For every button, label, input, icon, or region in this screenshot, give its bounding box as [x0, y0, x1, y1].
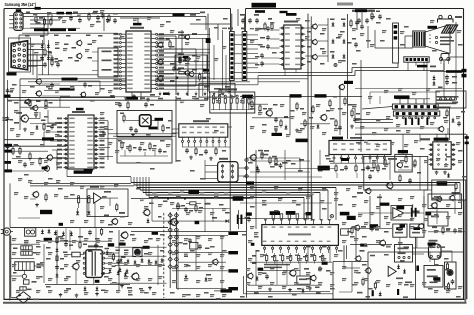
ground g1 — [23, 114, 38, 132]
wire video IC below — [182, 147, 230, 160]
transistor Q701 — [120, 231, 128, 239]
transistor Q513 — [417, 223, 423, 229]
diode D332 right — [221, 219, 229, 222]
op-amp U4 video IC body — [179, 124, 228, 147]
resistor Rt1 — [43, 18, 45, 27]
transistor Qd1 — [76, 40, 82, 46]
capacitor C330 dark — [237, 210, 243, 229]
wire staircase bus upper — [258, 61, 444, 76]
label below IC6 blk — [258, 262, 328, 271]
wire x57 col — [57, 230, 64, 284]
op-amp U8 triangle — [94, 193, 102, 203]
capacitor C353 — [158, 148, 166, 154]
box opamp outline — [87, 189, 128, 217]
wire rail x308 — [307, 14, 309, 262]
capacitor C510 — [368, 174, 372, 180]
diode D633 — [379, 291, 382, 296]
capacitor C402 — [338, 125, 342, 131]
wire node rail B — [174, 212, 178, 288]
resistor R311 — [39, 157, 41, 166]
capacitor C102 — [92, 13, 117, 24]
resistor R630 — [446, 262, 448, 271]
resistor R410 — [351, 109, 353, 118]
label under IC1 — [150, 93, 169, 96]
connector CN8 row1 — [392, 104, 438, 109]
label small blk — [59, 223, 63, 226]
box OSC outline — [117, 111, 172, 138]
title text — [5, 2, 37, 7]
box lower right1 — [428, 194, 462, 209]
label dsub field — [55, 44, 92, 62]
box bottom-right outline — [333, 252, 464, 299]
label blk rm2 — [370, 224, 379, 227]
diode D320 — [76, 208, 79, 215]
wire IC2 right rows — [305, 18, 328, 62]
diode Dd1 — [41, 43, 44, 48]
resistor R406 — [312, 105, 314, 114]
transistor Q321 — [111, 218, 118, 225]
label CN1 — [16, 9, 21, 11]
wire x70 col — [62, 230, 73, 250]
transistor Ql1 — [24, 99, 30, 105]
transistor Q402 — [320, 114, 327, 121]
label CN8 — [394, 95, 410, 98]
choke LF2 — [21, 251, 32, 255]
label B+ box — [233, 196, 244, 201]
label HVreg — [398, 150, 408, 153]
wire br top — [350, 225, 417, 261]
wire y228 power rail — [10, 227, 168, 229]
label d70x — [44, 236, 63, 241]
resistor R330 horiz — [186, 202, 201, 205]
diode D713 — [124, 272, 127, 277]
wire CN8 up — [396, 99, 430, 104]
label t1 below — [95, 273, 105, 283]
label IC6 pins top — [270, 211, 350, 215]
connector AC plug — [1, 228, 13, 235]
wire mid2 — [243, 150, 335, 180]
box top pair2 — [410, 224, 424, 237]
label top right nets — [352, 10, 375, 12]
transistor Q107 — [176, 71, 194, 79]
wire IC3 left — [40, 110, 64, 159]
wire y222 — [152, 199, 221, 222]
diode D710 dark — [106, 250, 109, 255]
diode D201 — [330, 19, 335, 27]
capacitor C515 dark — [411, 204, 417, 217]
wire bus y85 — [20, 76, 258, 86]
transistor Q304 — [32, 105, 38, 111]
resistor R615 — [371, 11, 382, 21]
transistor Qd2 — [76, 53, 82, 59]
box video-in terminals — [92, 48, 118, 77]
wire ic2 bottom — [285, 69, 296, 76]
transistor Q311 — [43, 165, 50, 172]
resistor row above IC6 — [272, 214, 307, 219]
resistor network RN1 — [210, 92, 255, 113]
diode row2 — [119, 267, 129, 274]
transistor Q501 — [438, 126, 444, 132]
wire y218 right — [237, 217, 312, 219]
border left — [3, 9, 5, 301]
photocoupler PC1 dark — [133, 248, 142, 257]
resistor R502 — [455, 182, 457, 191]
wire psu verts — [66, 228, 96, 245]
box reg outline — [432, 180, 466, 200]
capacitor C640 — [265, 266, 322, 280]
label L601 — [428, 26, 438, 29]
op-amp U9 jungle IC body — [262, 220, 339, 253]
label net mid1 — [272, 133, 283, 136]
transistor Q602 — [246, 273, 253, 280]
label psu more — [46, 247, 105, 255]
capacitor C301 — [46, 83, 54, 89]
wire rail x311 — [310, 16, 312, 221]
transistor Q503 — [449, 195, 455, 201]
wire y198 rail — [131, 198, 250, 200]
diode D340 dark — [256, 165, 259, 170]
transistor Q332 — [169, 218, 177, 226]
resistor R302 — [45, 99, 53, 108]
border top left board — [4, 8, 231, 10]
label br vals — [357, 246, 449, 298]
label c330 — [245, 217, 251, 219]
transistor Q510 — [386, 182, 394, 190]
wire IC3 right — [99, 121, 118, 160]
label r330 — [205, 203, 211, 205]
label bus blk1 — [34, 29, 76, 32]
wire y231 — [131, 231, 246, 233]
capacitor C215 — [255, 53, 264, 67]
diode D711 — [109, 268, 112, 273]
capacitor C348 — [118, 101, 154, 110]
label lower right — [431, 198, 456, 218]
transistor Q203 — [311, 54, 317, 60]
transistor Q340 — [249, 154, 256, 161]
label amp — [357, 192, 389, 206]
wire CN1 bus — [23, 14, 206, 28]
resistor R111 — [166, 38, 171, 49]
resistor R353 — [129, 144, 137, 153]
wire CN2 out — [28, 16, 44, 78]
diode D706 — [56, 273, 59, 278]
resistor R322 — [88, 196, 90, 209]
capacitor Cr2 — [445, 80, 449, 86]
resistor R405 — [304, 119, 306, 128]
label HD vals — [248, 96, 360, 119]
resistor Rbr1 — [347, 226, 353, 235]
resistor R115 h — [178, 32, 184, 39]
diode D630 — [397, 264, 400, 269]
connector jack pins — [439, 57, 450, 64]
label snubber — [119, 232, 158, 249]
label net V — [60, 88, 75, 91]
label CNL3 — [228, 269, 238, 272]
capacitor C212 — [357, 16, 375, 24]
resistor R513 — [414, 159, 416, 168]
connector CN6 narrow — [393, 23, 399, 63]
board tick marks — [222, 28, 261, 30]
wire RN1 bottom — [211, 109, 253, 111]
connector CN2 D-sub — [9, 38, 31, 72]
label sec vals — [183, 243, 211, 276]
capacitor C305 — [6, 88, 13, 150]
ground psu1 — [120, 284, 152, 290]
resistor R118 — [199, 73, 206, 82]
box HVreg — [395, 154, 412, 172]
resistor R711 — [112, 253, 114, 262]
label net reg — [396, 206, 431, 216]
border right thick — [464, 200, 466, 302]
box mid small — [297, 276, 310, 284]
diode D205 — [330, 51, 335, 59]
resistor R701 — [101, 227, 103, 236]
wire y241 psu — [40, 240, 112, 242]
resistor Rp1 — [79, 241, 87, 250]
label video parts — [199, 150, 226, 156]
label IC6 — [288, 233, 311, 235]
wire y139.7 bus — [4, 139, 66, 141]
resistor R116 h — [178, 53, 184, 60]
transistor Q511 — [365, 188, 372, 195]
wire bus left y79 — [20, 79, 258, 82]
label right mid — [443, 102, 465, 119]
label dark bar right — [430, 70, 462, 73]
wire rows mid — [247, 150, 321, 172]
label on bus — [188, 190, 199, 194]
transistor Q101 — [157, 42, 163, 48]
transistor Q504 — [396, 162, 403, 169]
capacitor C350 — [129, 126, 138, 137]
wire right col links — [370, 57, 456, 104]
resistor Rl2 — [12, 145, 21, 155]
label mid more — [163, 201, 230, 214]
resistor R335 — [177, 202, 185, 211]
label reg — [437, 181, 460, 194]
box lower right2 — [428, 212, 448, 226]
border right — [463, 9, 465, 301]
wire node rail A — [168, 212, 172, 288]
resistor R320 — [45, 193, 47, 202]
box right column — [445, 262, 457, 289]
box top pair1 — [393, 224, 407, 237]
transistor Q620 — [211, 259, 218, 266]
op-amp U3 IC3 body — [64, 115, 99, 169]
resistor R403 — [280, 119, 282, 128]
wire y208 mid — [172, 199, 230, 232]
bridge rectifier BD1 — [16, 292, 30, 304]
diode Dr2 — [433, 81, 436, 86]
CRT socket — [429, 244, 442, 259]
wire verticals low — [244, 232, 334, 298]
wire rail x361 — [360, 60, 362, 152]
label top right corner — [355, 9, 374, 12]
resistor R401 — [251, 100, 253, 109]
label IC1 — [130, 23, 144, 29]
label IC2 — [284, 13, 298, 23]
label q104 vals — [170, 33, 197, 82]
border bottom line1 — [4, 298, 465, 300]
wire CN3 top — [232, 9, 245, 32]
diode D202 — [341, 19, 352, 28]
transistor Q620b — [379, 240, 386, 247]
resistor Rd2 — [51, 58, 59, 67]
wire T2 right — [238, 168, 247, 176]
transformer T3 — [15, 262, 34, 271]
box deflection B — [424, 266, 443, 288]
transistor Q320 — [32, 191, 39, 198]
connector CN1 — [9, 12, 23, 30]
svg-text:Samsung 3Ne (14"): Samsung 3Ne (14") — [5, 2, 37, 7]
wire left rows — [10, 150, 66, 171]
label CN2 — [7, 72, 17, 75]
transistor Q104 — [184, 34, 190, 40]
resistor R117 h — [178, 67, 184, 74]
diode D206 — [341, 54, 346, 62]
diode D640 — [256, 276, 305, 293]
capacitor C115 — [124, 94, 150, 101]
capacitor Ct3 — [101, 13, 105, 19]
wire right col — [449, 108, 451, 140]
wire opamp — [66, 198, 118, 228]
label under box sync — [203, 69, 209, 72]
wire HD rows — [247, 85, 341, 232]
label left edge a — [5, 95, 11, 98]
box video out A — [395, 245, 413, 263]
wire sec rows — [170, 232, 228, 290]
wire left rail — [7, 80, 9, 170]
wire y88 right — [355, 88, 462, 90]
transistor Q302 — [35, 90, 42, 97]
wire psu left — [11, 236, 44, 298]
transistor Q202 — [311, 39, 317, 45]
label blk rm1 — [347, 216, 356, 220]
wire crt socket — [413, 248, 453, 266]
resistor R408 — [335, 119, 337, 128]
label bic6 a — [263, 255, 323, 258]
wire IC1-CN3 field — [158, 28, 223, 96]
wire CN3 CN4 link — [234, 35, 242, 73]
resistor R705 — [56, 236, 58, 245]
resistor R354 — [149, 142, 157, 151]
label mid2 vals — [258, 150, 334, 165]
transistor Q514 — [354, 225, 360, 231]
label psu top vals — [78, 231, 113, 240]
crystal X1 — [140, 115, 152, 127]
diode D631 — [403, 269, 406, 274]
resistor R340 — [261, 151, 263, 160]
connector CN3 — [230, 32, 235, 81]
label IC6 left — [246, 212, 252, 222]
node ring IC6 — [330, 215, 333, 218]
diode D402 — [317, 124, 320, 129]
wire y74.8 — [38, 74, 98, 76]
label right of IC1 — [173, 12, 206, 17]
resistor R341 — [269, 156, 271, 165]
wire T2 left — [205, 160, 218, 180]
resistor Rt2 — [50, 18, 52, 27]
wire amp右 — [358, 194, 420, 230]
ground hd — [274, 125, 354, 133]
connector CN8 row2 — [393, 111, 439, 116]
resistor R512 — [399, 174, 401, 183]
label l1 vals — [3, 100, 46, 121]
transistor Q403 — [338, 84, 345, 91]
transistor Q331 — [143, 209, 151, 217]
label rgb out — [158, 98, 217, 100]
transistor Q303 — [80, 92, 86, 98]
capacitor C201 col — [260, 26, 270, 50]
resistor R409 — [344, 97, 346, 106]
transistor Q301 — [35, 78, 42, 85]
wire IC5 up — [437, 134, 446, 142]
ground IC5 — [435, 171, 447, 175]
diode D501 — [452, 118, 455, 123]
wire y229 br — [348, 229, 465, 232]
label H-out IC — [332, 137, 362, 140]
box relay — [441, 54, 449, 61]
wire below IC6 — [248, 245, 332, 285]
resistor Rd1 — [44, 48, 52, 57]
resistor R510 — [373, 161, 375, 170]
label box pair — [395, 227, 420, 233]
border label — [35, 7, 41, 10]
wire T1 bottom — [45, 270, 130, 297]
label box defl — [396, 278, 412, 284]
label CN7 — [417, 65, 436, 68]
transistor Q305 big — [20, 114, 29, 123]
transistor Q622 — [365, 267, 372, 274]
diode D620 — [185, 274, 208, 282]
capacitor C310 — [99, 131, 106, 137]
diode D701 — [41, 229, 44, 234]
wire rm links — [405, 196, 452, 224]
label dark IC1right — [206, 38, 211, 43]
label CNL4 — [228, 287, 238, 290]
wire bus y176 — [67, 168, 131, 177]
label br blk — [360, 242, 440, 280]
wire left col y205 — [10, 183, 40, 227]
capacitor C111 — [172, 66, 180, 72]
label CN3 — [228, 28, 246, 30]
label CRT text — [440, 37, 454, 46]
ground below IC6 — [268, 287, 312, 292]
wire dsub riser — [19, 14, 48, 41]
wire funnel right — [450, 22, 464, 57]
label in box — [90, 186, 111, 193]
resistor R633 — [374, 281, 376, 290]
resistor R407 — [329, 99, 331, 108]
transistor Q103 — [157, 75, 163, 81]
transistor Q502 — [430, 202, 437, 209]
resistor R321 — [78, 196, 80, 209]
label IC6 left2 — [251, 243, 260, 257]
wire bus mid — [4, 134, 176, 146]
label net top — [57, 12, 73, 15]
wire IC6 right pair — [344, 245, 346, 262]
resistor R310 — [29, 152, 31, 161]
resistor R121 — [264, 18, 273, 31]
diode Dl1 — [36, 125, 39, 130]
CRT yoke block — [413, 31, 425, 47]
wire x207 vert — [208, 55, 227, 100]
wire y33 top — [22, 28, 118, 33]
label net mid3 — [344, 81, 353, 84]
label T1 — [88, 245, 99, 247]
capacitor Cp2 — [94, 243, 103, 249]
choke LF1 — [21, 246, 32, 250]
diode D705 — [56, 247, 59, 252]
